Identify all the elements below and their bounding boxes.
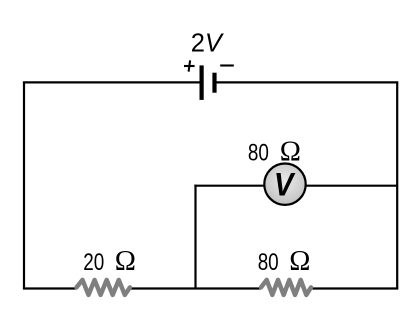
resistor R1 (20 ohm) zigzag: [77, 280, 130, 295]
svg-text:80Ω: 80Ω: [258, 246, 311, 277]
voltmeter M1 body: [264, 164, 305, 205]
svg-text:V: V: [274, 167, 296, 203]
wire: bottom middle segment: [130, 287, 261, 289]
battery V1 short plate (-): [212, 73, 216, 93]
wire: bottom right segment: [311, 287, 398, 289]
svg-text:20Ω: 20Ω: [83, 246, 136, 277]
svg-text:2V: 2V: [191, 30, 224, 58]
wire: middle vertical (junction to voltmeter branch): [194, 185, 196, 289]
wire: top right segment (from battery - plate): [216, 81, 398, 83]
wire: top left segment (to battery + plate): [23, 81, 200, 83]
battery plus sign: [184, 60, 195, 71]
battery V1 long plate (+): [200, 65, 204, 100]
wire: voltmeter branch horizontal: [194, 185, 397, 187]
wire: left vertical: [23, 82, 25, 288]
wire: bottom left segment: [23, 287, 77, 289]
battery minus sign: [220, 64, 234, 66]
svg-text:80Ω: 80Ω: [248, 137, 301, 168]
resistor R2 (80 ohm) zigzag: [261, 280, 311, 295]
wire: right vertical: [396, 82, 398, 288]
